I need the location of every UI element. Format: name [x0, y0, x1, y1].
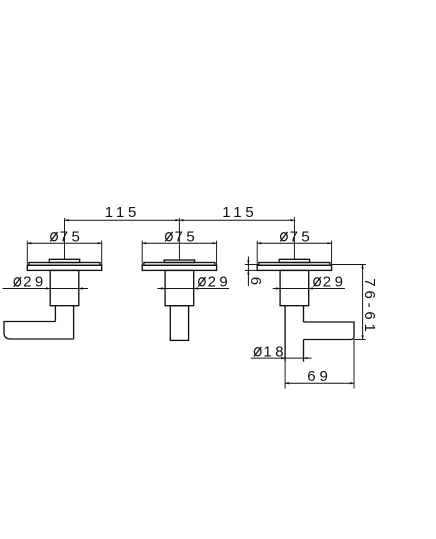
fixture 3 lever handle: [304, 322, 355, 340]
phi29 dim line fixture 1: [3, 288, 88, 290]
dim 69 right extension line: [353, 340, 355, 389]
dim 6 upper extension line: [245, 264, 260, 266]
dim 69 dim line: [285, 382, 354, 384]
arrow left end of 115: [65, 219, 69, 221]
fixture 1 escutcheon top plate: [49, 259, 79, 262]
fixture 3 valve body: [280, 270, 309, 305]
fixture 2 escutcheon middle band: [144, 263, 215, 266]
fixture 1 escutcheon middle band: [29, 263, 100, 266]
dim 6 arrows: [247, 261, 249, 275]
center extension line fixture 1: [64, 218, 66, 260]
arrow right end of 115: [290, 219, 294, 221]
phi75 dim line fixture 2: [142, 242, 216, 244]
label phi75 fixture 3: [281, 233, 288, 241]
fixture 1 escutcheon lower band: [27, 265, 101, 270]
svg-text:6: 6: [247, 277, 264, 289]
phi18 dim line: [251, 357, 312, 359]
phi29 arrows fixture 3: [276, 287, 313, 289]
dim 76-61 vertical dim line: [362, 265, 364, 340]
dim 69 arrows: [285, 382, 354, 384]
phi75 arrows fixture 2: [142, 242, 216, 244]
dim 6 lower extension line: [245, 269, 257, 271]
dimension 115 (left span) dim line: [65, 219, 180, 221]
fixture 3 stem left edge: [284, 306, 286, 362]
fixture 2 escutcheon top plate: [164, 260, 194, 263]
phi75 extension lines fixture 1: [26, 241, 28, 266]
fixture 2 escutcheon lower band: [142, 265, 216, 270]
fixture 1 stem: [55, 306, 73, 339]
svg-text:29: 29: [323, 273, 347, 290]
arrows at middle junction of 115 dims: [175, 219, 183, 221]
dim 76-61 arrows: [361, 265, 363, 340]
phi75 extension lines fixture 2: [141, 241, 143, 266]
label phi29 fixture 2: [199, 278, 206, 286]
fixture 3 stem right edge upper: [303, 306, 305, 322]
phi29 dim line fixture 3: [273, 288, 345, 290]
svg-text:76-61: 76-61: [361, 278, 378, 335]
phi75 arrows fixture 1: [27, 242, 101, 244]
svg-text:29: 29: [208, 273, 232, 290]
dim 69 left extension line: [284, 361, 286, 389]
fixture 3 escutcheon top plate: [279, 259, 309, 262]
phi29 dim line fixture 2: [158, 288, 230, 290]
dim 76-61 bottom extension line: [354, 339, 366, 341]
label phi75 fixture 2: [166, 233, 173, 241]
center extension line fixture 3: [293, 217, 295, 260]
phi75 extension lines fixture 3: [256, 241, 258, 266]
phi75 arrows fixture 3: [257, 242, 331, 244]
dim 6 vertical line: [247, 257, 249, 287]
fixture 3 stem right edge lower: [303, 340, 305, 362]
phi29 arrows fixture 1: [46, 287, 83, 289]
fixture 2 valve body: [165, 270, 194, 305]
fixture 1 lever handle: [4, 322, 74, 340]
label phi18: [254, 348, 261, 356]
svg-text:115: 115: [105, 204, 140, 221]
dimension 115 (right span) dim line: [179, 219, 294, 221]
svg-text:29: 29: [23, 274, 47, 291]
dim 76-61 top extension line: [332, 264, 366, 266]
fixture 2 stem: [170, 306, 188, 341]
label phi75 fixture 1: [51, 233, 58, 241]
svg-text:115: 115: [222, 204, 257, 221]
center extension line fixture 2: [178, 218, 180, 261]
fixture 3 escutcheon lower band: [257, 265, 331, 270]
label phi29 fixture 1: [14, 278, 21, 286]
phi75 dim line fixture 3: [257, 242, 331, 244]
svg-text:69: 69: [307, 368, 331, 385]
fixture 1 valve body: [50, 270, 79, 305]
fixture 3 escutcheon middle band: [259, 263, 330, 266]
phi18 arrows: [281, 357, 307, 359]
phi75 dim line fixture 1: [27, 242, 101, 244]
phi29 arrows fixture 2: [161, 287, 198, 289]
label phi29 fixture 3: [314, 278, 321, 286]
